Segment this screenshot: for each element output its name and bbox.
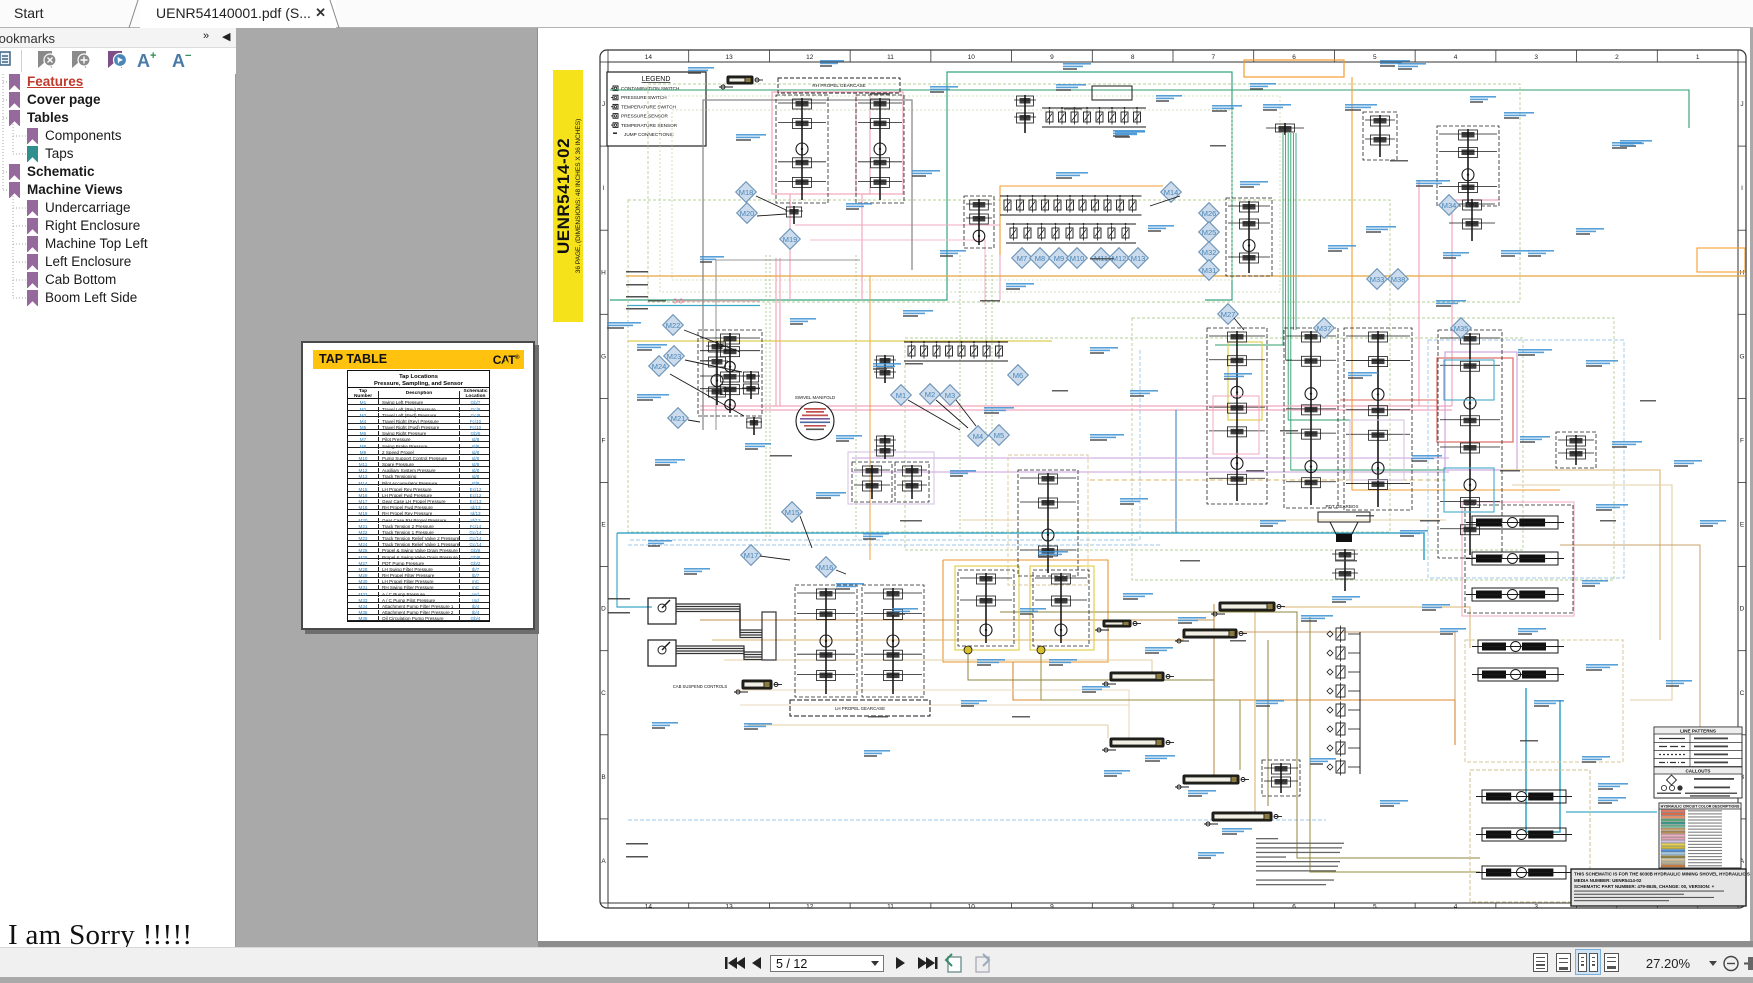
oil sampling module right	[1556, 432, 1596, 468]
brake valve gp	[874, 435, 896, 459]
wire blue vertical	[1175, 410, 1177, 533]
tap diamond M34	[1439, 195, 1460, 216]
return filter group	[1449, 199, 1495, 241]
wire orange pilot branch	[1000, 186, 1163, 255]
svg-text:C: C	[1740, 690, 1745, 697]
svg-text:M15: M15	[785, 508, 800, 517]
wire violet loop mid	[848, 452, 934, 504]
svg-text:13: 13	[725, 54, 733, 61]
svg-text:M20: M20	[740, 209, 755, 218]
RH track tension cylinder	[719, 76, 763, 89]
swing motor group rows	[1476, 790, 1572, 803]
svg-text:M1: M1	[896, 391, 906, 400]
tap diamond M6	[1008, 365, 1029, 386]
page border outer frame	[600, 50, 1746, 908]
svg-text:I: I	[1741, 185, 1743, 192]
wire green suction bundle	[1283, 133, 1296, 330]
svg-text:8: 8	[1131, 54, 1135, 61]
rotary manifold valve	[742, 371, 760, 399]
svg-text:M37: M37	[1317, 324, 1332, 333]
svg-text:4: 4	[1454, 54, 1458, 61]
svg-text:11: 11	[887, 54, 894, 61]
svg-text:6: 6	[1292, 904, 1296, 911]
svg-text:J: J	[602, 101, 605, 108]
wire pink loop around RH propel valves	[772, 92, 870, 194]
svg-text:8: 8	[1131, 904, 1135, 911]
pump stack 3 violet inner	[1350, 420, 1404, 480]
component group outline light green 5	[660, 96, 1280, 292]
legend box	[607, 72, 706, 146]
svg-text:LINE PATTERNS: LINE PATTERNS	[1680, 729, 1716, 734]
wire pink jump stub left	[675, 300, 760, 302]
wire pink gearcase returns	[795, 225, 1000, 300]
yellow node circles	[964, 646, 972, 654]
tap diamond M31	[1199, 260, 1220, 281]
callouts table	[1654, 767, 1742, 798]
svg-text:M13: M13	[1131, 254, 1146, 263]
yellow cluster module 1	[958, 570, 1014, 646]
cab suspend controls joystick 1	[648, 598, 676, 624]
wire tan sweep right side	[1502, 470, 1660, 640]
tap diamond M18	[736, 182, 757, 203]
svg-text:7: 7	[1212, 54, 1216, 61]
svg-text:PDT GEARBOX: PDT GEARBOX	[1325, 504, 1358, 509]
wire violet loop right	[1445, 352, 1517, 470]
svg-text:M31: M31	[1202, 266, 1217, 275]
tap diamond M33	[1367, 269, 1388, 290]
svg-text:G: G	[601, 353, 606, 360]
LH track tension cylinder	[734, 680, 782, 694]
wire khaki dashed rects bottom right	[1465, 640, 1623, 762]
right manifold 2	[1472, 640, 1564, 653]
tap diamond M21	[668, 408, 689, 429]
svg-text:M9: M9	[1054, 254, 1064, 263]
wire pale green dotted verticals	[765, 255, 767, 540]
svg-text:E: E	[601, 522, 606, 529]
wire green top bus	[610, 90, 1689, 128]
wire olive runs	[1000, 612, 1480, 858]
tap diamond M16	[816, 557, 837, 578]
line patterns table	[1654, 727, 1742, 767]
tap diamond M35	[1451, 318, 1472, 339]
tap diamond M19	[780, 229, 801, 250]
wire blue loop bottom right	[1526, 688, 1560, 832]
tap diamond M5	[989, 425, 1010, 446]
yellow banner	[553, 70, 583, 322]
tap diamond M14	[1161, 182, 1182, 203]
note A text block	[1256, 838, 1344, 885]
component group outline light green 6	[672, 110, 1232, 280]
tap diamond M1	[891, 385, 912, 406]
svg-text:H: H	[601, 269, 606, 276]
pilot valve bank B	[904, 341, 1008, 361]
wire pink vertical pair to swivel	[775, 258, 777, 406]
svg-text:5: 5	[1373, 904, 1377, 911]
svg-text:11: 11	[887, 904, 894, 911]
svg-text:M3: M3	[945, 391, 955, 400]
svg-text:3: 3	[1534, 904, 1538, 911]
wire light blue dashed 2	[628, 819, 1326, 821]
svg-text:M34: M34	[1442, 201, 1457, 210]
wire orange box top	[1244, 60, 1344, 77]
wire orange riser	[1352, 77, 1560, 490]
tap table floating page	[301, 341, 535, 630]
tap diamond M38	[1388, 269, 1409, 290]
svg-text:14: 14	[645, 54, 653, 61]
RH propel valve assembly 1	[776, 95, 828, 203]
wire blue right stubs	[1566, 811, 1657, 813]
page border inner frame	[608, 62, 1738, 903]
tap diamond M22	[663, 315, 684, 336]
cab controls hose bundle	[676, 604, 776, 660]
wire orange long jump line	[626, 275, 1745, 277]
wire light blue dashed horizontal	[628, 544, 1160, 546]
svg-text:M26: M26	[1202, 209, 1217, 218]
wire cyan left jump stub	[627, 305, 760, 307]
schematic page	[538, 28, 1750, 941]
tap diamond M25	[1199, 222, 1220, 243]
svg-text:12: 12	[806, 54, 814, 61]
dark strip above status bar	[538, 941, 1753, 947]
main pump stack 3	[1344, 328, 1412, 510]
svg-text:M6: M6	[1013, 371, 1023, 380]
wire pink loop inner	[856, 92, 903, 194]
svg-text:M10: M10	[1070, 254, 1085, 263]
svg-text:M24: M24	[652, 362, 667, 371]
svg-text:14: 14	[645, 904, 653, 911]
fan valve group top right	[1437, 126, 1499, 206]
tap diamond M2	[920, 384, 941, 405]
svg-text:M23: M23	[667, 352, 682, 361]
svg-text:10: 10	[968, 54, 976, 61]
svg-text:7: 7	[1212, 904, 1216, 911]
cab suspend controls joystick 2	[648, 640, 676, 666]
svg-text:3: 3	[1534, 54, 1538, 61]
tap diamond M27	[1218, 304, 1239, 325]
wire pink supply pair horizontal	[700, 405, 1452, 407]
leader lines from diamonds	[670, 196, 1244, 574]
schematic notes box	[1571, 869, 1753, 906]
suction header bank	[1042, 107, 1146, 127]
wire green bundle fanout	[1215, 330, 1283, 345]
left rotary manifold	[698, 330, 762, 416]
pump stack 1 pink inner	[1213, 396, 1259, 454]
svg-text:SCHEMATIC PART NUMBER: 479-863: SCHEMATIC PART NUMBER: 479-8635, CHANGE:…	[1574, 884, 1715, 889]
bucket cylinder 1	[1175, 775, 1249, 789]
svg-text:5: 5	[1373, 54, 1377, 61]
wire orange bottom runs	[1013, 662, 1455, 745]
right manifold rows	[1465, 505, 1573, 613]
svg-text:J: J	[1740, 101, 1743, 108]
svg-text:HYDRAULIC CIRCUIT COLOR DESCRI: HYDRAULIC CIRCUIT COLOR DESCRIPTIONS	[1661, 805, 1740, 809]
tap diamond M26	[1199, 203, 1220, 224]
oil cooler group top right	[1363, 112, 1397, 160]
accumulator cluster	[1226, 198, 1272, 276]
component group outline light green 4	[1132, 318, 1614, 580]
svg-text:M21: M21	[671, 414, 686, 423]
svg-text:M8: M8	[1035, 254, 1045, 263]
LH propel gearbox cluster	[795, 585, 857, 697]
svg-text:B: B	[601, 774, 605, 781]
wire gray loop left manifold	[703, 100, 912, 430]
svg-text:M7: M7	[1017, 254, 1027, 263]
stick cylinder 1	[1102, 672, 1174, 686]
boom valve module small	[1262, 760, 1300, 796]
svg-text:2: 2	[1615, 54, 1619, 61]
wire orange callout box top right	[1697, 248, 1745, 272]
yellow cluster module 2	[1033, 570, 1089, 646]
svg-text:THIS SCHEMATIC IS FOR THE 6030: THIS SCHEMATIC IS FOR THE 6030B HYDRAULI…	[1574, 872, 1750, 877]
pilot filter cluster	[964, 196, 994, 248]
svg-text:D: D	[601, 606, 606, 613]
svg-text:M4: M4	[973, 432, 983, 441]
svg-text:M5: M5	[994, 431, 1004, 440]
component group outline light green 3	[905, 338, 1523, 550]
tap diamond M4	[968, 426, 989, 447]
RH propel valve assembly 2	[856, 95, 904, 203]
wire yellow cluster web	[955, 566, 1019, 650]
pilot manifold bank A	[1000, 195, 1142, 215]
LH propel gearbox cluster 2	[862, 585, 924, 697]
wire pink right riser	[1418, 180, 1420, 406]
svg-text:4: 4	[1454, 904, 1458, 911]
tap diamond M23	[664, 346, 685, 367]
tap diamond M3	[940, 385, 961, 406]
RH propel gearcase header	[778, 78, 900, 93]
tap diamond M15	[782, 502, 803, 523]
stick cylinder 2	[1102, 738, 1174, 752]
svg-text:E: E	[1740, 522, 1745, 529]
hydraulic circuit color table	[1659, 803, 1741, 868]
wire orange lower loop	[943, 560, 1108, 662]
tap diamond M32	[1199, 242, 1220, 263]
wire tan dashed horizontal pair right	[1090, 479, 1446, 481]
svg-text:12: 12	[806, 904, 814, 911]
small loader cylinder	[1095, 620, 1141, 632]
wire dark yellow jump line	[628, 340, 1052, 342]
component group outline light green	[648, 84, 1520, 302]
wire pink loop right manifold	[1462, 502, 1574, 616]
attachment manifold module	[1018, 470, 1078, 576]
svg-text:I: I	[603, 185, 605, 192]
bookmarks sidebar	[0, 28, 236, 947]
svg-text:SWIVEL MANIFOLD: SWIVEL MANIFOLD	[795, 395, 835, 400]
boom cylinder 2	[1175, 629, 1247, 643]
svg-text:13: 13	[725, 904, 733, 911]
wire violet pair	[852, 457, 1449, 459]
svg-text:M35: M35	[1454, 324, 1469, 333]
svg-text:M25: M25	[1202, 228, 1217, 237]
wire red loop top right	[1437, 358, 1513, 442]
svg-text:10: 10	[968, 904, 976, 911]
svg-text:G: G	[1739, 353, 1744, 360]
tap diamond M24	[649, 356, 670, 377]
tap diamond M37	[1314, 318, 1335, 339]
svg-text:F: F	[602, 437, 606, 444]
tap diamond M20	[737, 203, 758, 224]
svg-text:LEGEND: LEGEND	[642, 76, 671, 83]
wire teal return loop	[610, 72, 1232, 300]
wire cream long horizontals	[740, 704, 1129, 706]
wire pink drops from propel valves	[789, 194, 791, 300]
blue component labels	[736, 134, 766, 141]
tap diamond M17	[741, 545, 762, 566]
wire gray inner	[716, 260, 860, 430]
propel brake valve	[746, 417, 762, 435]
main pump stack 2	[1284, 328, 1338, 508]
svg-text:M27: M27	[1221, 310, 1236, 319]
bucket cylinder 2	[1204, 812, 1282, 826]
svg-text:MEDIA NUMBER: UENR5414-02: MEDIA NUMBER: UENR5414-02	[1574, 878, 1642, 883]
main pump stack 4	[1438, 330, 1502, 558]
mid right valve bank column	[1327, 626, 1360, 776]
wire red stub	[1340, 399, 1437, 401]
svg-text:F: F	[1740, 437, 1744, 444]
svg-text:M14: M14	[1164, 188, 1179, 197]
svg-text:1: 1	[1696, 54, 1700, 61]
svg-text:A: A	[601, 858, 606, 865]
swing manifold wide	[852, 462, 892, 502]
wire tan bundle bottom	[700, 604, 1214, 620]
status bar	[0, 947, 1753, 977]
steering manifold small	[785, 206, 803, 224]
svg-text:JUMP CONNECTIONS:: JUMP CONNECTIONS:	[624, 132, 674, 137]
svg-text:C: C	[601, 690, 606, 697]
svg-text:CALLOUTS: CALLOUTS	[1685, 769, 1710, 774]
swing manifold wide 2	[895, 462, 929, 502]
svg-text:CAB SUSPEND CONTROLS: CAB SUSPEND CONTROLS	[673, 684, 728, 689]
wire cyan main horizontal	[617, 533, 1424, 560]
svg-text:D: D	[1740, 606, 1745, 613]
main pump stack 1	[1207, 328, 1267, 504]
cylinder drive group	[1332, 549, 1358, 591]
misc small black labels	[1090, 258, 1114, 260]
PDT gearbox	[1318, 504, 1370, 542]
suction header small parts	[1092, 86, 1132, 100]
svg-text:M38: M38	[1391, 275, 1406, 284]
svg-text:RH PROPEL GEARCASE: RH PROPEL GEARCASE	[812, 83, 865, 88]
svg-text:M33: M33	[1370, 275, 1385, 284]
svg-text:9: 9	[1050, 904, 1054, 911]
boom cylinder 1	[1211, 602, 1285, 616]
wire yellow right	[1228, 342, 1262, 420]
svg-text:M17: M17	[744, 551, 759, 560]
svg-text:M16: M16	[819, 563, 834, 572]
wire blue left stub lower	[617, 533, 652, 607]
svg-text:M18: M18	[739, 188, 754, 197]
swivel manifold circle	[795, 395, 835, 440]
svg-text:M32: M32	[1202, 248, 1217, 257]
svg-text:M2: M2	[925, 390, 935, 399]
tap diamonds M7-M13 row	[1012, 248, 1033, 269]
wire light blue dashed rect right stacks	[1428, 340, 1624, 578]
suction header module	[1266, 123, 1304, 135]
svg-text:PRESSURE SENSOR: PRESSURE SENSOR	[621, 114, 669, 119]
wire light blue dashed 3	[628, 350, 1140, 540]
svg-text:H: H	[1740, 269, 1745, 276]
wire teal right drop	[1205, 140, 1232, 300]
ruler row ticks and letters	[600, 62, 1746, 903]
steering valve gp	[874, 355, 896, 383]
LH propel gearbox base	[790, 700, 930, 716]
component group outline light green 2	[628, 200, 1390, 532]
ruler column ticks and numbers	[608, 50, 1738, 911]
charge filter group	[1014, 95, 1036, 133]
tab bar	[0, 0, 1753, 28]
pump stack 4 cyan inner	[1444, 360, 1494, 400]
left edge jump labels	[626, 271, 648, 273]
svg-text:M22: M22	[666, 321, 681, 330]
svg-text:LH PROPEL GEARCASE: LH PROPEL GEARCASE	[835, 706, 885, 711]
svg-text:M19: M19	[783, 235, 798, 244]
svg-text:TEMPERATURE SENSOR: TEMPERATURE SENSOR	[621, 123, 678, 128]
svg-text:9: 9	[1050, 54, 1054, 61]
pilot manifold bank A row2	[1006, 223, 1136, 243]
